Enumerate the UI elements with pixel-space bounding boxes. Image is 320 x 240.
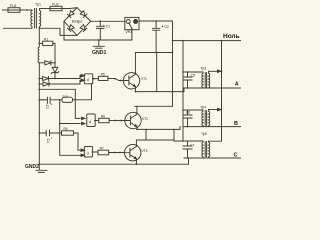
node lb133 — [39, 132, 41, 134]
svg-text:R1: R1 — [44, 38, 48, 42]
resistor R5 — [98, 76, 115, 80]
svg-text:C2: C2 — [164, 25, 169, 29]
wire T2 collector up — [136, 106, 138, 112]
svg-text:Bridge1: Bridge1 — [72, 20, 83, 24]
bridge rectifier Bridge1 diamond — [64, 8, 91, 36]
transformer T1 secondary winding — [40, 9, 41, 29]
label C1 — [103, 25, 105, 27]
wire neutral rail right — [209, 41, 222, 142]
unit B top wire — [183, 109, 202, 111]
node lb89 — [39, 89, 41, 91]
node C5 top — [187, 71, 189, 73]
node base3 dot2 — [119, 152, 121, 154]
wire T2 emitter down — [137, 127, 180, 130]
node neutral-A — [221, 71, 223, 73]
label C2 — [162, 25, 164, 27]
wire minus bus — [64, 21, 132, 40]
resistor R1 — [39, 41, 55, 63]
arrow into U2 pin2 — [82, 122, 86, 124]
svg-text:VR1: VR1 — [125, 30, 132, 34]
svg-text:Ноль: Ноль — [223, 33, 240, 40]
wire AC input top — [3, 9, 9, 11]
regulator VR1 — [125, 17, 139, 40]
node zc2 — [54, 78, 56, 80]
resistor R4 — [62, 131, 82, 150]
driver U2 — [87, 114, 95, 127]
node base1 dot1 — [114, 78, 116, 80]
node bus-lb — [39, 163, 41, 165]
wire T1 emitter down right — [135, 88, 184, 92]
svg-text:C1: C1 — [106, 25, 111, 29]
wire zc row3 — [39, 83, 43, 85]
wire LB main left bus — [38, 63, 40, 155]
wire U2 to R6 — [95, 120, 99, 122]
wire collector bus T1 — [135, 52, 172, 54]
coil L1 sync winding — [38, 28, 39, 63]
svg-text:Тр5: Тр5 — [201, 132, 207, 136]
svg-text:C7: C7 — [190, 143, 194, 147]
wire osc to U1 bottom — [75, 84, 91, 100]
node R1 tap — [39, 43, 41, 45]
svg-text:VT1: VT1 — [141, 77, 147, 81]
svg-text:+: + — [51, 103, 53, 107]
node osc tap U2 — [59, 123, 61, 125]
transformer T1 core — [35, 9, 37, 29]
arrow into U3 pin2 — [81, 154, 85, 156]
unit A top wire — [183, 71, 202, 73]
node rail52b — [172, 52, 174, 54]
node bus-emitter3 — [136, 163, 138, 165]
fuse FU1 — [8, 8, 20, 13]
wire T3 collector up — [136, 140, 174, 145]
node lb84 — [39, 83, 41, 85]
wire secondary bottom to bridge — [40, 28, 77, 35]
svg-text:VT2: VT2 — [142, 117, 148, 121]
svg-text:FU2: FU2 — [52, 3, 59, 7]
node neutral-vr1 — [172, 40, 174, 42]
svg-text:FU1: FU1 — [10, 4, 17, 8]
ground GND1 — [93, 39, 104, 48]
bridge diode D-c bottom-left — [67, 25, 74, 32]
wire rail to units top — [182, 41, 184, 141]
node lb78 — [39, 78, 41, 80]
node unitC-rail — [182, 140, 184, 142]
bridge diode D-b top-right — [80, 11, 87, 18]
resistor R6 — [99, 118, 124, 122]
capacitor C3 — [40, 97, 60, 103]
node C7 bottom — [187, 157, 189, 159]
diode VD1 — [45, 61, 55, 65]
pulse transformer Tr3 primary — [202, 72, 203, 88]
node neutral-rail-top — [221, 40, 223, 42]
svg-text:Тр4: Тр4 — [200, 106, 206, 110]
ground bus bottom — [39, 163, 188, 165]
svg-text:VT3: VT3 — [142, 149, 148, 153]
svg-text:B: B — [234, 121, 238, 127]
wire zc row2 — [39, 78, 42, 80]
node C1 top — [100, 20, 102, 22]
transistor VT2 — [124, 112, 141, 128]
unit B bottom wire / output B — [184, 126, 241, 128]
node U1 out — [93, 78, 95, 80]
transistor VT3 — [124, 145, 141, 161]
transformer T1 primary winding — [31, 10, 32, 28]
node lb99 — [39, 99, 41, 101]
wire U3 to R7 — [92, 151, 98, 153]
wire neutral Nol — [173, 40, 241, 42]
arrow neutral A — [218, 70, 222, 72]
wire emitter2 stub vertical — [145, 129, 147, 140]
node base2 dot1 — [115, 120, 117, 122]
transistor VT1 — [123, 73, 139, 89]
pulse transformer Tr3 secondary — [209, 71, 210, 88]
node C5 bottom — [187, 87, 189, 89]
svg-text:R7: R7 — [100, 146, 104, 150]
svg-text:R5: R5 — [101, 72, 105, 76]
opto driver U1 — [84, 74, 93, 84]
pulse transformer Tr5 core — [205, 142, 206, 157]
wire osc tap down to U3 lower — [60, 124, 80, 156]
arrow into U3 pin1 — [81, 149, 85, 151]
wire fuse to transformer — [20, 9, 32, 11]
capacitor C5 — [183, 72, 192, 88]
wire unitC bottom to ground bus — [188, 158, 190, 164]
svg-text:d: d — [89, 119, 91, 124]
node top-left junction — [26, 9, 28, 11]
svg-text:A: A — [235, 82, 239, 88]
svg-text:C3: C3 — [45, 105, 49, 109]
unit C top wire — [174, 140, 203, 142]
zener VD2 — [51, 63, 59, 79]
svg-text:R6: R6 — [101, 114, 105, 118]
wire osc tap down to U2 lower — [60, 100, 80, 124]
svg-text:d: d — [87, 150, 89, 155]
wire T3 emitter down — [135, 160, 137, 164]
wire oscillator row — [39, 99, 45, 101]
node neutral-B — [221, 109, 223, 111]
node emitter1 — [135, 91, 137, 93]
diode VD3 — [43, 76, 80, 81]
svg-text:d: d — [87, 77, 89, 82]
pulse transformer Tr5 secondary — [209, 141, 210, 158]
node rail52a — [156, 52, 158, 54]
svg-text:R4: R4 — [64, 127, 68, 131]
wire primary bottom return — [3, 27, 31, 29]
unit A bottom wire / output A — [184, 87, 241, 89]
pulse transformer Tr4 secondary — [209, 110, 210, 127]
wire +V rail down — [172, 41, 174, 107]
node unitB-rail — [182, 109, 184, 111]
svg-text:GND1: GND1 — [92, 50, 107, 56]
capacitor C2 — [153, 21, 160, 53]
svg-text:GND2: GND2 — [25, 164, 39, 170]
wire secondary top to fuse FU2 — [40, 8, 50, 10]
ground GND2 — [36, 155, 47, 172]
pulse transformer Tr4 core — [205, 111, 206, 126]
pulse transformer Tr4 primary — [202, 110, 203, 127]
capacitor C7 — [183, 141, 192, 158]
wire FU2 to bridge — [62, 7, 77, 10]
svg-text:C6: C6 — [186, 111, 190, 115]
capacitor C4 — [39, 130, 61, 136]
wire collector bus T2 — [135, 105, 173, 107]
node C2 top — [155, 20, 157, 22]
node base2 dot2 — [120, 120, 122, 122]
crystal ZQ1 — [60, 97, 76, 102]
wire VR1 output — [139, 21, 173, 41]
wire zc row4 to unit2 — [39, 89, 80, 118]
pulse transformer Tr5 primary — [202, 141, 203, 158]
unit C bottom wire / output C — [184, 157, 241, 159]
node emitter2 — [136, 129, 138, 131]
resistor R7 — [98, 150, 124, 155]
node zc1 — [54, 62, 56, 64]
wire Tr4 secondary top to neutral rail — [209, 109, 222, 111]
wire U1 to R5 — [93, 78, 99, 80]
node osc-right — [75, 99, 77, 101]
node secondary bottom junction — [39, 28, 41, 30]
arrow neutral B — [218, 108, 222, 110]
driver U3 — [84, 147, 92, 158]
svg-text:C5: C5 — [191, 73, 195, 77]
wire R5 to T1 base — [115, 79, 124, 81]
capacitor C1 — [97, 21, 105, 40]
node C6 bottom — [187, 126, 189, 128]
bridge diode D-a top-left — [67, 11, 74, 18]
wire zero-cross row1 — [39, 62, 45, 64]
arrow into U1 pin2 — [81, 79, 85, 81]
fuse FU2 — [50, 6, 62, 10]
svg-text:Тр3: Тр3 — [200, 67, 206, 71]
wire T1 collector up — [134, 53, 136, 73]
wire bridge plus output — [91, 20, 125, 22]
svg-text:ZQ1: ZQ1 — [63, 95, 69, 99]
capacitor C6 — [183, 110, 192, 127]
bridge diode D-d bottom-right — [80, 25, 87, 32]
arrow into U1 pin1 — [80, 74, 85, 76]
node rail-nol — [182, 40, 184, 42]
arrow into U2 pin1 — [82, 117, 86, 119]
node unitA-rail — [182, 71, 184, 73]
svg-text:Тр1: Тр1 — [35, 2, 41, 6]
svg-text:C: C — [234, 153, 238, 159]
pulse transformer Tr3 core — [205, 73, 206, 88]
diode VD4 — [43, 80, 80, 86]
wire Tr3 secondary top to neutral rail — [209, 70, 222, 72]
wire cross link x174 — [173, 129, 175, 141]
svg-text:C4: C4 — [46, 139, 50, 143]
node base1 dot2 — [120, 80, 122, 82]
wire mid vertical — [156, 53, 158, 92]
node osc-left — [59, 99, 61, 101]
node base3 dot1 — [114, 152, 116, 154]
